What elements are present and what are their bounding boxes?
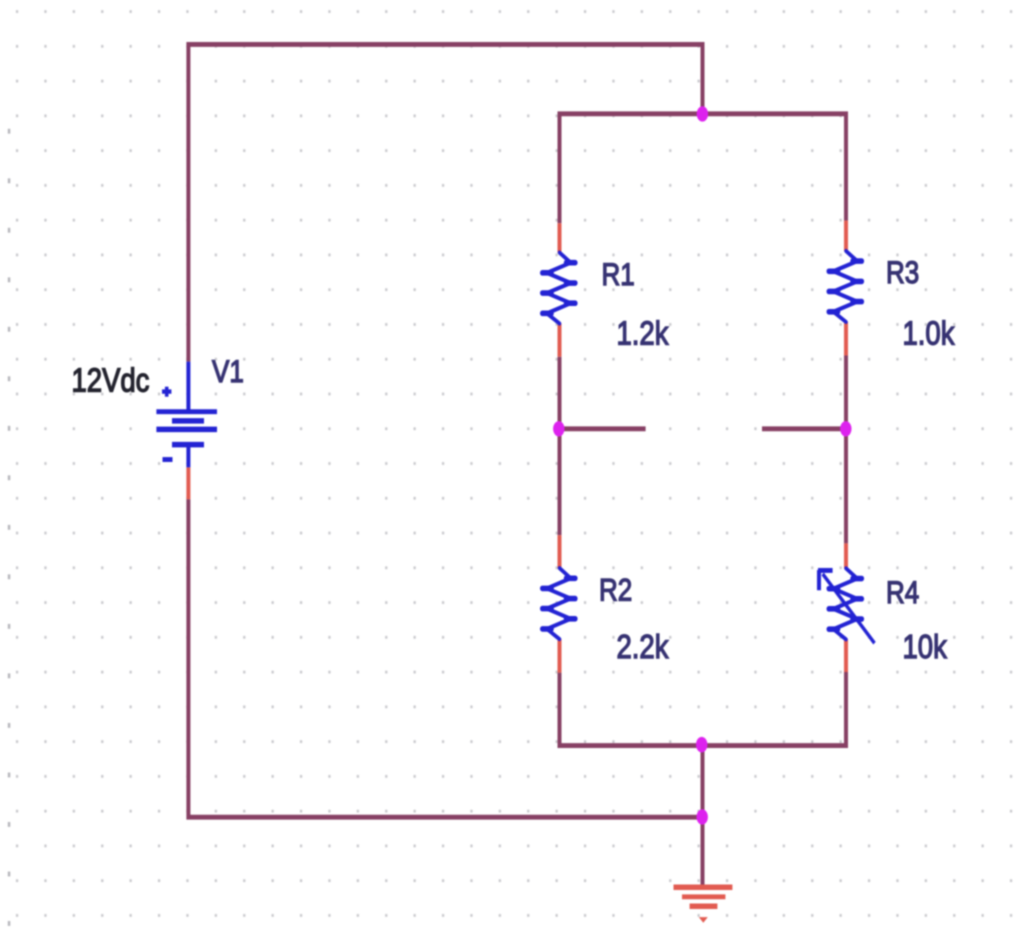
svg-text:V1: V1 bbox=[212, 355, 244, 390]
svg-text:1.2k: 1.2k bbox=[617, 314, 670, 352]
svg-text:R3: R3 bbox=[886, 256, 919, 291]
svg-text:10k: 10k bbox=[903, 628, 948, 666]
svg-text:R4: R4 bbox=[886, 575, 919, 610]
svg-text:12Vdc: 12Vdc bbox=[72, 361, 150, 399]
svg-text:2.2k: 2.2k bbox=[617, 628, 670, 666]
svg-text:1.0k: 1.0k bbox=[903, 314, 956, 352]
svg-text:R2: R2 bbox=[599, 573, 632, 608]
svg-text:R1: R1 bbox=[602, 258, 635, 293]
